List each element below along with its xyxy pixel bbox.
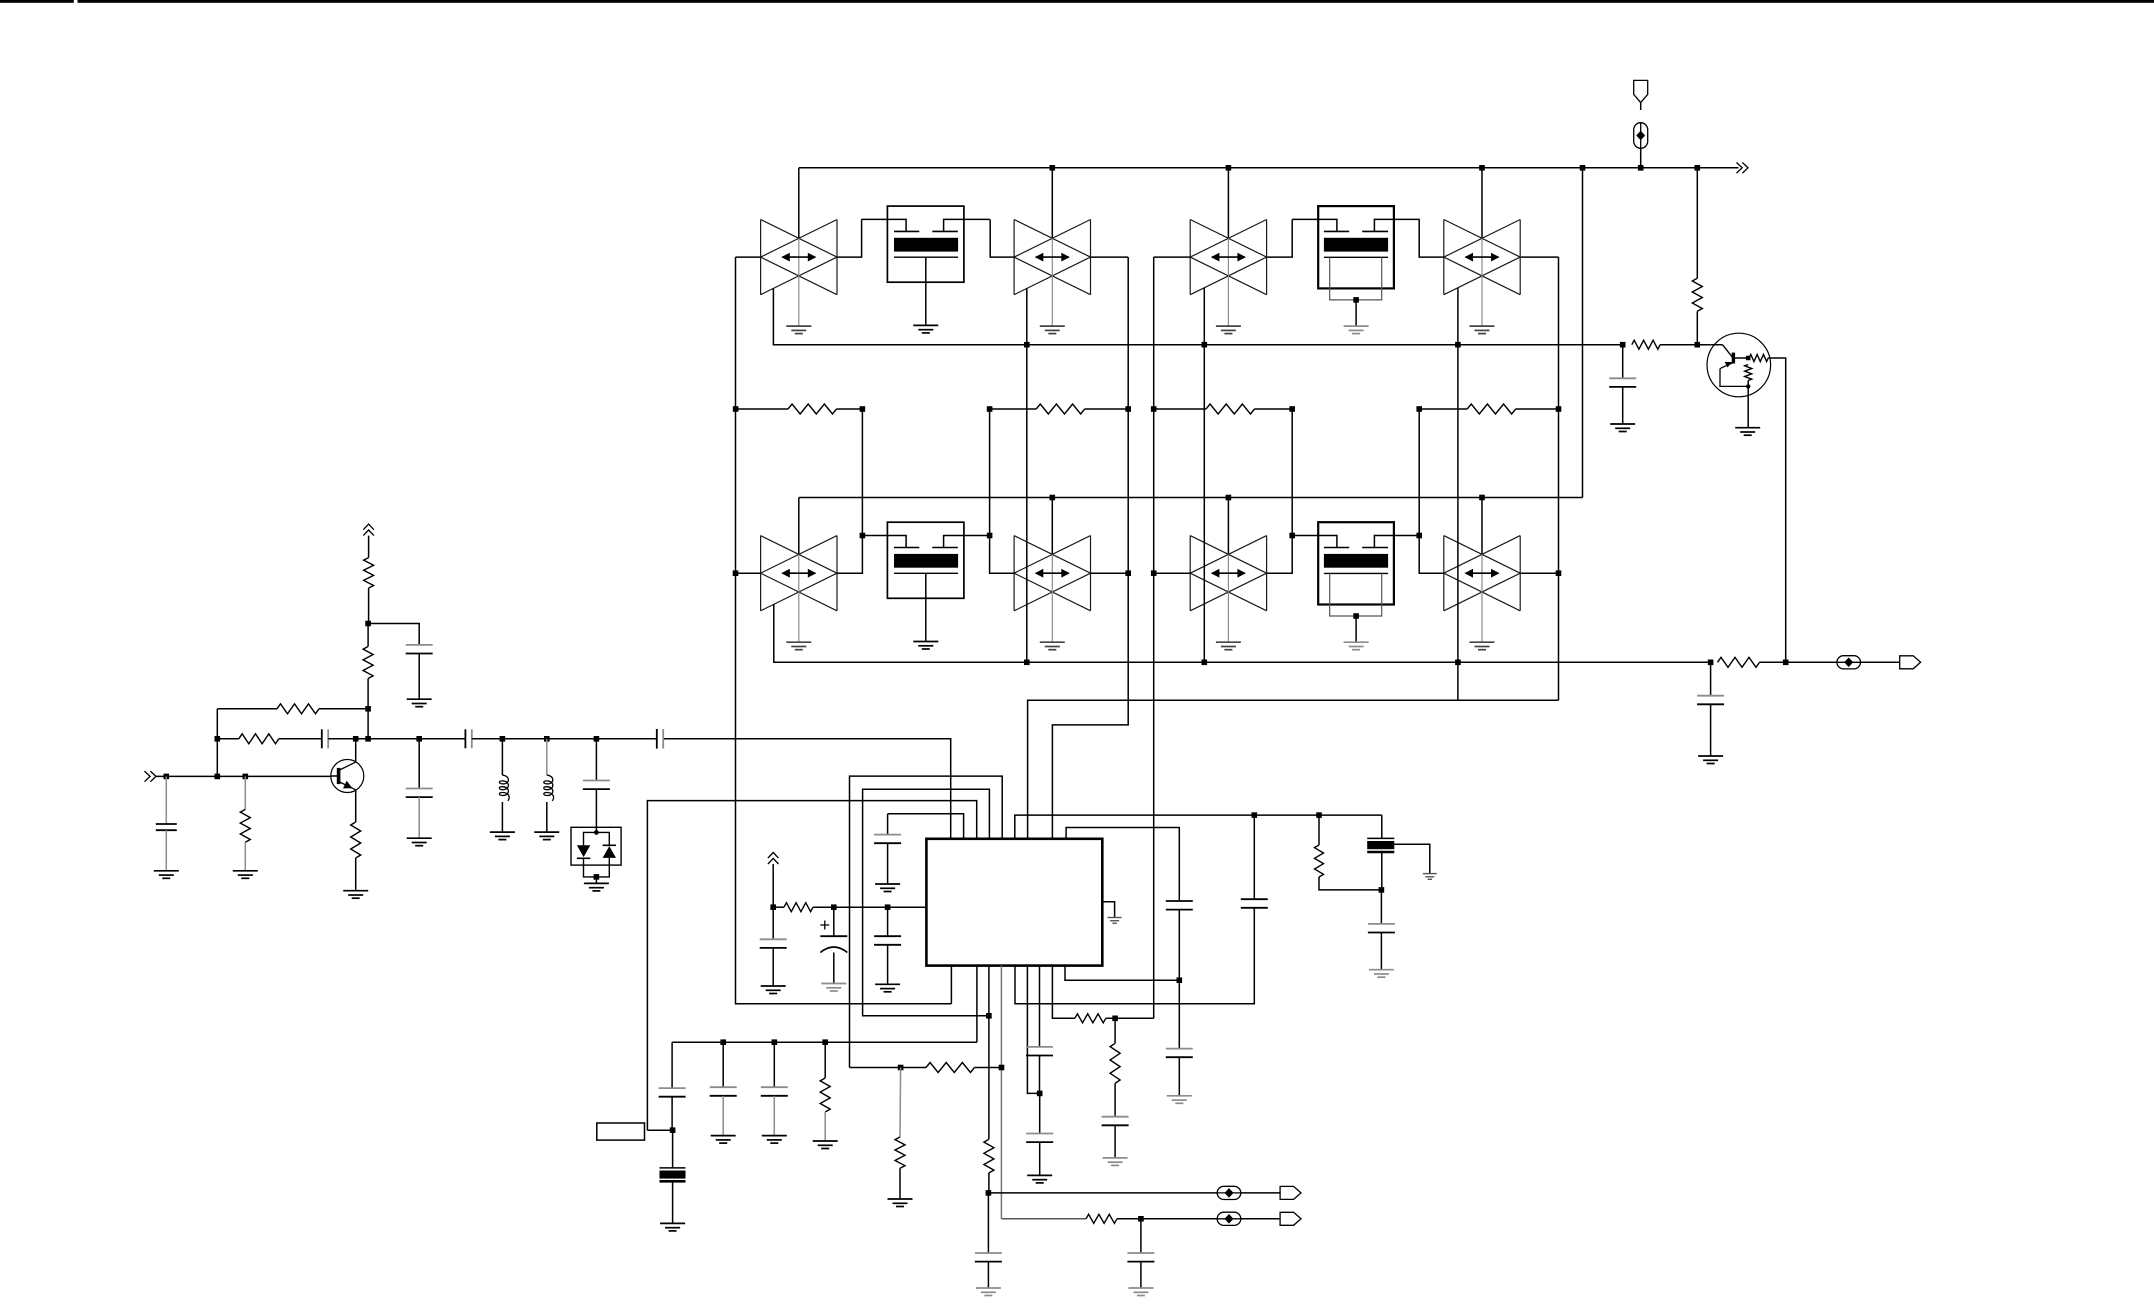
junction output [1708,660,1714,666]
resistor R19 [217,734,321,744]
wire bowtie top drops row1 [799,168,1482,239]
wire pin1065 to node [1065,966,1179,981]
MOSFET Q4 [1292,522,1419,650]
ground R15 [813,1141,838,1149]
ground C6 [875,984,900,992]
wire loop pin976 [647,801,976,1131]
capacitor C6 bias shunt2 [874,907,901,984]
wire loop647 tail [647,1129,672,1131]
resistor R10 pin1052 row [1052,966,1153,1023]
ground C19 [154,871,179,879]
transistor Q5 NPN [331,760,364,793]
ground R17 [343,891,368,899]
resistor R5 base [1632,340,1698,349]
transistor Q6 PNP digital [1697,333,1785,662]
wire pin951 bottom loop [950,966,952,1004]
resistor R4 bias row [1419,404,1558,536]
diode pair D1 [571,827,621,877]
junction left column [733,570,739,576]
junction input row [164,774,249,780]
wire column x1153 [1153,257,1155,1018]
junction loop1066 [1177,977,1183,983]
varactor VC6 [1014,536,1090,642]
capacitor C8 crystal load [1368,890,1395,970]
wire loop pin963 [888,814,964,839]
ground C4 [761,986,786,994]
capacitor C15 output2 [1127,1219,1154,1288]
wire base feedback vertical [216,709,218,777]
capacitor C19 input shunt [156,776,177,870]
capacitor C9 on 1066 loop [1166,901,1193,980]
top border bar [0,0,2154,3]
capacitor C23 supply [368,624,433,700]
ground C8 [1369,970,1394,978]
resistor R20 supply [364,536,374,624]
inductor L1 [499,739,509,832]
resistor R2 bias row [990,404,1129,536]
resistor R1 bias row [736,404,863,536]
junction output2 corner [999,1065,1005,1071]
MOSFET Q1 [862,206,990,333]
MOSFET Q3 [862,522,990,649]
ground Q6 emitter [1735,428,1760,436]
wire column x1558 [1558,257,1560,700]
ground bowtie row1 [786,326,1494,334]
wire pin1001 column [1000,966,1002,1219]
capacitor C5 electrolytic [820,907,847,983]
wire row to C21 [356,738,466,740]
capacitor C1 shunt on bus1 [1609,345,1636,424]
MOSFET Q2 [1292,206,1419,334]
wire loop pin1002 [850,776,1003,1067]
resistor R15 column825 [820,1042,830,1141]
ground bowtie row2 [786,642,1494,650]
port P_BIAS chevrons [768,853,779,865]
wire bias row left [672,1041,977,1043]
capacitor C2 shunt output [1697,662,1724,756]
resistor R13 loop series [850,1063,1002,1073]
capacitor C3 stub loop963 [874,814,901,884]
junction R13 left [898,1065,904,1071]
inductor L2 [544,739,554,832]
wire left column vertical [736,257,952,1004]
wire pin1014 right line [1015,815,1382,839]
ground C1 [1610,424,1635,432]
resistor R6 collector pullup [1692,168,1702,345]
varactor VC1 [761,220,837,326]
ground C23 [407,699,432,707]
wire pin988 column [988,966,990,1140]
junction bus1 dots [1024,342,1626,348]
capacitor C13 stub [1102,1117,1129,1158]
junction bias row dots [733,406,1561,412]
junction coupling row [215,736,600,742]
wire column x1128 [1052,257,1128,839]
wire row1 gate links [837,219,1559,257]
wire pin1027 bottom jog [1027,966,1039,1094]
junction pin1039 [1037,1091,1043,1097]
ground C10 [1167,1096,1192,1104]
wire probe to flag2 [1241,1218,1280,1220]
wire input row [156,775,331,777]
varactor VC5 [761,536,837,642]
current probe IP1 [1634,123,1648,149]
junction crystal node [670,1127,676,1133]
junction right line dots [1252,812,1322,818]
ground C17 [711,1136,736,1144]
wire pin976 loop [976,966,978,1043]
IC U1 [926,839,1102,966]
wire bowtie5 left stub [736,572,761,574]
wire diode ground stem [595,877,597,884]
ground D1 [584,883,609,891]
wire bias port stem [772,864,774,907]
wire control bus row1 [773,288,1622,662]
ground C5 [821,984,846,992]
resistor R7 output series [1718,657,1837,667]
junction row2 link bus [1050,495,1485,501]
current probe IP3 [1217,1186,1241,1199]
crystal X2 [1367,815,1394,890]
junction [1638,165,1644,171]
junction R10 [1112,1016,1118,1022]
wire crystal case tap [1394,844,1430,873]
capacitor C24 collector shunt [406,739,433,838]
capacitor C7 series [1015,815,1268,1004]
capacitor C10 stub [1166,980,1193,1096]
ground X1 [660,1223,685,1231]
wire probe to flag1 [1241,1192,1280,1194]
ground C2 [1698,756,1723,764]
junction base node [1695,342,1701,348]
port P_IN chevrons [145,771,157,782]
ground IC stub [1108,918,1122,924]
wire IC right ground stub [1102,902,1114,918]
resistor R12 output1 [984,1139,994,1193]
capacitor C25 diode column [583,739,610,833]
varactor VC7 [1190,536,1266,642]
capacitor C22 series [656,729,658,749]
ground crystal case [1423,874,1437,880]
junction row2 gate dots [860,533,1562,576]
varactor VC8 [1444,536,1520,642]
resistor R18 feedback [217,704,368,714]
port P_OUT2 flag [1280,1212,1301,1225]
capacitor C4 bias shunt [760,907,787,986]
capacitor C20 series [322,729,356,748]
ground C15 [1128,1288,1153,1296]
ground C3 [875,884,900,892]
capacitor C14 output1 [975,1193,1002,1288]
current probe IP2 [1837,656,1861,669]
ground R14 [888,1199,913,1207]
wire collector [355,739,357,762]
varactor VC3 [1190,220,1266,326]
wire flag to probe [1640,103,1642,110]
wire pin1066 loop [1066,828,1179,902]
wire bowtie1 left stub [736,256,761,258]
ground C14 [976,1288,1001,1296]
resistor R16 input shunt [240,776,250,870]
wire loop pin989 [863,789,990,1016]
Vcc feed port chevrons [363,524,374,535]
wire row2 link bus [799,168,1583,555]
wire pin1027 net [1028,700,1559,839]
ground L2 [534,832,559,840]
varactor VC2 [1014,220,1090,326]
capacitor C16 column672 [659,1042,686,1130]
resistor R21 supply2 [363,624,373,739]
junction collector join [1783,660,1789,666]
capacitor C17 column723 [710,1042,737,1135]
crystal X1 [660,1130,686,1223]
resistor R8 bias [773,903,926,912]
ground C24 [407,838,432,846]
junction pin988 node [986,1013,992,1019]
wire row2 gate links [837,536,1559,574]
junction feedback node [365,706,371,712]
wire output1 row [988,1192,1217,1194]
power connector flag P_VCC [1634,80,1648,102]
wire bus2 drop to 700 line [1457,662,1459,700]
wire loop pin951 input feed [663,739,951,839]
junction bias row left dots [720,1039,828,1045]
junction output2 [1138,1216,1144,1222]
wire top supply bus [799,167,1739,169]
port P_OUT1 flag [1280,1186,1301,1199]
junction bias row [770,904,890,910]
wire probe to port [1861,661,1900,663]
port P_OUT flag [1900,656,1921,669]
ground L1 [490,832,515,840]
resistor R9 crystal parallel [1315,815,1382,890]
ground C13 [1103,1158,1128,1166]
junction crystal bottom [1379,887,1385,893]
ground C12 [1027,1175,1052,1183]
DC block box [597,1123,645,1140]
capacitor C21 series [465,729,656,748]
junction diode bottom [594,874,600,880]
ground R16 [233,871,258,879]
wire probe to bus [1640,148,1642,168]
resistor R11 stub [1110,1018,1120,1116]
junction supply node [365,621,371,627]
wire output2 row [1002,1214,1217,1223]
capacitor C18 column774 [761,1042,788,1135]
capacitor C11 pin1039 upper [1026,966,1053,1094]
ground C18 [762,1136,787,1144]
junction output1 [986,1190,992,1196]
junction bus2 dots [1024,660,1461,666]
resistor R3 bias row [1154,404,1293,536]
wire control bus row2 [774,604,1711,662]
resistor R17 emitter [351,790,361,891]
resistor R14 stub [895,1068,905,1200]
junction top bus [1050,165,1701,171]
node top bus arrow out [1737,163,1749,174]
current probe IP4 [1217,1212,1241,1225]
capacitor C12 pin1039 lower [1026,1093,1053,1175]
varactor VC4 [1444,220,1520,326]
